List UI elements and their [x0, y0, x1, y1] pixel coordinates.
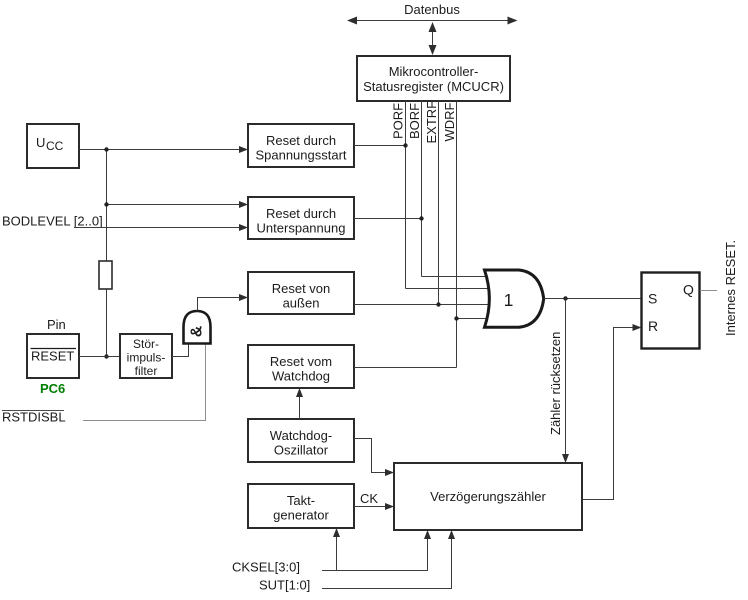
- svg-text:CKSEL[3:0]: CKSEL[3:0]: [232, 560, 300, 575]
- svg-text:1: 1: [504, 290, 514, 310]
- svg-text:Unterspannung: Unterspannung: [257, 221, 346, 236]
- svg-text:Mikrocontroller-: Mikrocontroller-: [389, 64, 479, 79]
- svg-text:S: S: [648, 291, 657, 307]
- svg-text:filter: filter: [135, 364, 158, 378]
- svg-text:U: U: [36, 135, 45, 150]
- svg-text:Stör-: Stör-: [133, 337, 159, 351]
- svg-text:EXTRF: EXTRF: [424, 101, 439, 144]
- svg-text:Reset durch: Reset durch: [266, 133, 336, 148]
- svg-text:impuls-: impuls-: [127, 351, 166, 365]
- svg-text:generator: generator: [273, 508, 329, 523]
- svg-text:Watchdog-: Watchdog-: [270, 428, 332, 443]
- svg-text:Pin: Pin: [47, 317, 66, 332]
- svg-text:PORF: PORF: [391, 103, 406, 139]
- svg-text:Reset vom: Reset vom: [270, 354, 332, 369]
- svg-text:R: R: [648, 318, 658, 334]
- svg-text:SUT[1:0]: SUT[1:0]: [259, 578, 310, 593]
- svg-text:BODLEVEL [2..0]: BODLEVEL [2..0]: [2, 214, 103, 229]
- svg-text:PC6: PC6: [40, 381, 65, 396]
- svg-text:Takt-: Takt-: [287, 493, 315, 508]
- svg-text:BORF: BORF: [407, 103, 422, 139]
- svg-text:RESET: RESET: [31, 349, 74, 364]
- svg-text:Watchdog: Watchdog: [272, 369, 330, 384]
- svg-text:Reset von: Reset von: [272, 281, 331, 296]
- svg-text:außen: außen: [283, 296, 320, 311]
- svg-text:RSTDISBL: RSTDISBL: [2, 410, 66, 425]
- svg-text:Internes RESET.: Internes RESET.: [723, 240, 738, 336]
- svg-text:Statusregister (MCUCR): Statusregister (MCUCR): [363, 79, 504, 94]
- svg-text:Datenbus: Datenbus: [404, 2, 460, 17]
- svg-text:WDRF: WDRF: [442, 102, 457, 141]
- svg-text:Spannungsstart: Spannungsstart: [255, 148, 346, 163]
- svg-text:Zähler rücksetzen: Zähler rücksetzen: [548, 332, 563, 435]
- svg-text:Verzögerungszähler: Verzögerungszähler: [430, 489, 546, 504]
- svg-text:&: &: [189, 325, 206, 337]
- svg-text:CK: CK: [360, 491, 378, 506]
- svg-text:Q: Q: [683, 282, 694, 298]
- svg-text:Reset durch: Reset durch: [266, 206, 336, 221]
- svg-text:Oszillator: Oszillator: [274, 443, 329, 458]
- svg-text:CC: CC: [46, 139, 64, 153]
